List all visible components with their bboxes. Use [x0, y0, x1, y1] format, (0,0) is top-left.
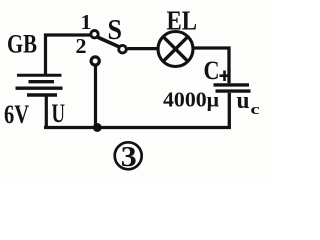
- svg-text:6V: 6V: [4, 100, 29, 129]
- svg-text:GB: GB: [7, 30, 37, 59]
- wire contact 2 down to bottom rail: [94, 66, 97, 127]
- lamp EL circle: [158, 32, 193, 67]
- capacitor C1 top plate: [214, 83, 250, 86]
- switch contact 1: [91, 31, 98, 38]
- switch contact 2: [91, 57, 99, 65]
- svg-text:2: 2: [76, 34, 87, 58]
- capacitor C1 bottom plate: [216, 89, 251, 92]
- svg-text:U: U: [52, 99, 66, 128]
- svg-text:3: 3: [121, 141, 137, 173]
- wire capacitor down to bottom rail: [228, 93, 231, 128]
- junction node: [93, 123, 102, 132]
- svg-text:c: c: [251, 102, 260, 118]
- lamp cross stroke 2: [163, 37, 188, 62]
- battery GB long plate 2: [16, 86, 63, 89]
- switch blade: [98, 37, 120, 47]
- svg-text:1: 1: [81, 10, 92, 34]
- svg-text:4000μ: 4000μ: [163, 88, 219, 112]
- switch pivot: [119, 45, 127, 53]
- battery GB short plate 2: [27, 93, 57, 96]
- lamp cross stroke 1: [163, 37, 188, 62]
- capacitor polarity plus: [220, 71, 229, 82]
- svg-text:u: u: [237, 88, 250, 114]
- bottom rail wire: [44, 126, 231, 129]
- svg-text:C: C: [204, 56, 220, 85]
- wire battery negative to bottom rail: [45, 97, 48, 128]
- wire lamp to capacitor: [193, 48, 229, 83]
- battery GB short plate 1: [29, 80, 55, 83]
- battery GB long plate 1: [17, 74, 62, 77]
- figure number circle: [115, 142, 142, 169]
- wire battery positive to switch contact 1: [46, 35, 91, 74]
- wire pivot to lamp: [128, 47, 159, 50]
